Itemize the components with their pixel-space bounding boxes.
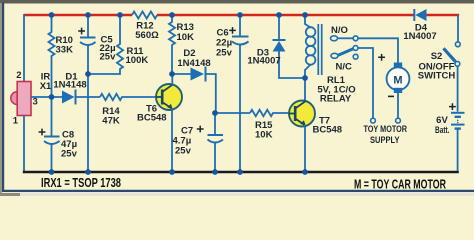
svg-text:BC548: BC548 [137,113,167,124]
relay RL1 coil [305,15,315,78]
svg-text:560Ω: 560Ω [135,30,159,41]
diode D3 [278,15,280,40]
wire C5/R11 node to ground (crosses signal wire) [87,74,89,171]
relay core [318,24,321,75]
svg-text:25v: 25v [100,52,117,63]
wire collector node to D2 [172,73,191,75]
svg-text:47K: 47K [102,115,120,126]
svg-text:SWITCH: SWITCH [418,70,456,81]
svg-text:25v: 25v [61,149,78,160]
svg-text:TOY MOTOR: TOY MOTOR [364,124,408,135]
wire N/O to motor [358,38,398,62]
switch S2 [457,15,459,42]
battery + polarity mark [449,103,456,110]
transistor T6 [156,84,182,110]
diode D4 [413,9,415,21]
svg-text:1N4007: 1N4007 [247,55,280,66]
resistor R11 [90,15,123,74]
svg-text:1N4007: 1N4007 [403,31,436,42]
svg-text:100K: 100K [126,55,149,66]
svg-text:Batt.: Batt. [435,125,450,136]
capacitor C7 [214,113,216,135]
relay pole arm [338,49,354,56]
svg-text:10K: 10K [255,130,273,141]
svg-text:SUPPLY: SUPPLY [370,135,400,146]
relay contact N/C [353,54,358,59]
svg-text:10K: 10K [177,32,195,43]
motor - polarity mark [388,95,394,97]
diode D2 [191,68,205,81]
svg-text:X1: X1 [40,81,52,92]
svg-text:1N4148: 1N4148 [53,80,86,91]
svg-text:1: 1 [13,116,19,127]
resistor R10 [49,15,55,97]
svg-text:BC548: BC548 [313,124,343,135]
capacitor C6 [239,15,241,36]
motor M [387,63,410,119]
resistor R13 [169,15,175,74]
svg-text:3: 3 [33,97,38,108]
wire pole to supply terminal [358,48,373,118]
resistor R12 [132,12,157,19]
svg-text:M: M [393,75,402,87]
wire T7 emitter to ground [304,126,306,172]
capacitor C8 [44,136,60,138]
relay contact N/O [331,36,338,41]
svg-text:M = TOY CAR MOTOR: M = TOY CAR MOTOR [354,177,446,192]
svg-text:N/O: N/O [331,25,348,36]
wire signal from pin3 [31,96,62,98]
wire coil to T7 collector [304,78,306,101]
svg-text:N/C: N/C [336,62,353,73]
svg-text:1N4148: 1N4148 [177,58,210,69]
svg-text:25v: 25v [216,48,233,59]
wire pin2 to rail [23,14,25,82]
toy motor supply terminals [371,118,376,123]
diode D1 [62,91,75,104]
wire T6 collector [171,74,173,85]
capacitor C5 [87,15,89,37]
resistor R15 [215,112,250,114]
motor + polarity mark [378,54,385,61]
svg-text:25v: 25v [175,146,192,157]
ground rail [23,171,459,174]
svg-text:2: 2 [16,70,21,81]
+V rail (red) [24,14,459,17]
battery 6V [451,113,465,171]
wire T6 emitter to ground [171,109,173,171]
resistor R14 [100,94,157,100]
IR receiver module X1 [11,82,31,116]
svg-text:33K: 33K [56,45,74,56]
svg-text:RELAY: RELAY [320,94,352,105]
svg-text:IRX1 = TSOP 1738: IRX1 = TSOP 1738 [41,175,121,190]
transistor T7 [289,101,315,127]
wire pin1 to ground [23,116,25,172]
